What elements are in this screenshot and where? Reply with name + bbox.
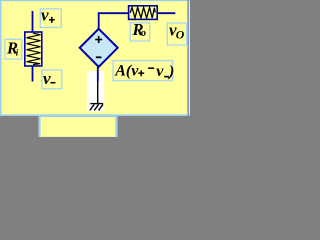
- plus mark inside source: [95, 36, 102, 43]
- svg-text:v: v: [156, 63, 164, 80]
- svg-text:O: O: [176, 28, 185, 42]
- canvas background: [0, 0, 190, 116]
- resistor Ri zigzag: [27, 33, 41, 64]
- dependent source U1 (diamond): [80, 29, 118, 67]
- wire: source bottom to ground (blue part): [97, 67, 99, 82]
- label box v+: [40, 6, 61, 28]
- resistor Ri body: [25, 32, 42, 66]
- minus mark inside source: [96, 56, 102, 58]
- svg-text:v: v: [43, 69, 51, 88]
- resistor Ro body: [129, 6, 158, 20]
- wire: v- lead below Ri: [32, 66, 34, 82]
- label box vO: [167, 20, 186, 45]
- bottom text field: [40, 116, 117, 138]
- label box Ro: [130, 20, 149, 41]
- wire: v+ input lead: [32, 11, 34, 33]
- label box v-: [42, 69, 62, 89]
- ground: [90, 81, 103, 110]
- wire: horizontal to Ro: [98, 12, 129, 14]
- svg-text:): ): [167, 63, 174, 80]
- svg-text:o: o: [141, 28, 146, 39]
- svg-text:A(v: A(v: [114, 63, 139, 80]
- ground highlight box: [87, 71, 104, 112]
- resistor Ro zigzag: [130, 7, 155, 18]
- wire: from source top vertex up: [98, 13, 100, 29]
- bottom bar: [0, 116, 190, 137]
- wire: output lead: [157, 12, 175, 14]
- svg-text:v: v: [41, 6, 49, 25]
- label box Ri: [5, 39, 22, 60]
- label box A(v+ - v-): [113, 61, 174, 81]
